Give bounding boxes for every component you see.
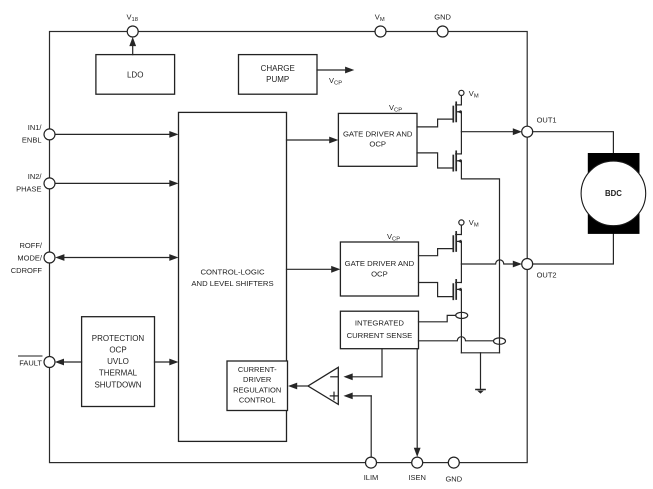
gate driver block 1 [338,113,417,166]
comparator U-CMP [308,367,338,404]
svg-text:FAULT: FAULT [19,358,42,367]
transistor Q3 (high-side, bridge 2) [453,232,461,251]
gate driver block 2 [340,242,418,296]
pin ISEN [408,457,426,482]
LDO block U-LDO [96,55,175,95]
transistor Q4 (low-side, bridge 2) [453,280,461,299]
wire gate driver 2 to Q4 gate [419,283,454,297]
wire gate driver 1 to Q1 gate [417,119,453,127]
wire gate driver 2 to Q3 gate [419,249,454,256]
node VM supply bridge 1 [459,89,479,100]
wire Q4 source through sense loop to common node [460,289,462,352]
svg-text:PHASE: PHASE [16,184,41,193]
svg-text:LDO: LDO [127,70,143,79]
protection block [82,317,155,407]
wire charge pump VCP output arrow [317,67,354,74]
svg-text:OCP: OCP [369,140,386,149]
pin OUT2 [522,259,557,280]
wire current sense block to oval 2 (hops over Q4 source wire) [419,337,494,341]
svg-text:CDROFF: CDROFF [11,266,43,275]
wire IN1 to control logic [55,131,179,138]
svg-text:CHARGE: CHARGE [261,64,295,73]
svg-text:OCP: OCP [371,269,388,278]
svg-text:GATE DRIVER AND: GATE DRIVER AND [345,259,415,268]
pin OUT1 [522,116,557,138]
wire IN2 to control logic [55,180,179,187]
svg-text:OUT1: OUT1 [537,116,557,125]
wire comparator output to regulation control [288,383,308,390]
svg-text:ILIM: ILIM [364,473,379,482]
wire protection to control logic [155,359,179,366]
control logic block [179,112,287,441]
wire common sense node bottom bar [461,352,499,354]
svg-text:VM: VM [469,89,479,100]
wire protection to FAULT pin [55,359,82,366]
svg-text:GND: GND [434,12,451,21]
wire gate driver 1 to Q2 gate [417,153,453,168]
wire to ground [480,353,482,389]
svg-text:PROTECTION: PROTECTION [92,334,145,343]
svg-text:UVLO: UVLO [107,357,129,366]
svg-text:V18: V18 [127,12,138,23]
wire Q1 source to Q2 drain [460,112,462,154]
svg-text:PUMP: PUMP [266,75,289,84]
svg-text:DRIVER: DRIVER [243,375,272,384]
svg-text:OCP: OCP [109,346,126,355]
pin GND (bottom) [445,457,462,483]
pin VM (top) [375,12,386,37]
svg-text:CONTROL-LOGIC: CONTROL-LOGIC [200,267,265,276]
outer chip boundary [50,32,528,463]
svg-text:ROFF/: ROFF/ [20,241,43,250]
current sense loop oval 1 [456,312,468,318]
wire bridge1 output to OUT1 [461,128,522,135]
pin IN1/ENBL [22,123,55,144]
wire current sense to ISEN pin with arrow [414,349,421,457]
pin GND (top) [434,12,451,37]
svg-text:ENBL: ENBL [22,135,42,144]
svg-text:ISEN: ISEN [408,473,426,482]
pin IN2/PHASE [16,172,55,193]
svg-text:VM: VM [375,12,385,23]
svg-text:VCP: VCP [387,232,400,243]
pin ILIM [364,457,379,482]
wire control logic to gate driver 2 [287,266,341,273]
wire VM to Q1 drain [460,96,462,105]
transistor Q1 (high-side, bridge 1) [453,102,461,121]
wire bridge2 output to OUT2 (hops over sense wire) [461,260,522,268]
svg-text:MODE/: MODE/ [17,253,43,262]
svg-text:IN1/: IN1/ [28,123,43,132]
svg-text:INTEGRATED: INTEGRATED [355,319,404,328]
svg-text:CURRENT SENSE: CURRENT SENSE [347,331,413,340]
wire control logic to gate driver 1 [287,137,339,144]
svg-text:BDC: BDC [605,189,622,198]
wire current sense to comparator inverting input [344,349,383,381]
transistor Q2 (low-side, bridge 1) [453,151,461,170]
svg-text:AND LEVEL SHIFTERS: AND LEVEL SHIFTERS [191,279,273,288]
svg-text:VCP: VCP [389,103,402,114]
svg-text:GND: GND [445,474,462,483]
svg-text:CONTROL: CONTROL [239,396,276,405]
pin V18 [127,12,139,37]
svg-text:THERMAL: THERMAL [99,369,138,378]
wire Q3 source to Q4 drain [460,241,462,282]
charge pump block [239,55,318,95]
svg-text:VCP: VCP [329,76,342,87]
pin FAULT (active low) [19,356,56,368]
svg-text:REGULATION: REGULATION [233,385,281,394]
svg-text:SHUTDOWN: SHUTDOWN [94,380,141,389]
wire motor to OUT2 [533,234,614,264]
pin ROFF/MODE/CDROFF [11,241,55,275]
wire ILIM to comparator non-inverting input [344,393,372,458]
wire OUT1 to motor [533,132,614,153]
integrated current sense block [340,311,418,349]
svg-text:GATE DRIVER AND: GATE DRIVER AND [343,129,413,138]
node VM supply bridge 2 [459,218,479,229]
wire ROFF bidirectional to control logic [55,254,178,261]
wire LDO to V18 with arrow [129,37,136,55]
svg-text:VM: VM [469,218,479,229]
svg-text:CURRENT-: CURRENT- [238,365,277,374]
wire current sense block to oval 1 [419,315,456,321]
svg-text:IN2/: IN2/ [28,172,43,181]
wire VM to Q3 drain [460,225,462,234]
ground [476,390,485,394]
current-driver regulation control block [227,361,288,411]
motor BDC [581,153,646,234]
svg-text:OUT2: OUT2 [537,271,557,280]
current sense loop oval 2 [494,338,506,344]
wire Q2 source to sense path [461,161,499,353]
